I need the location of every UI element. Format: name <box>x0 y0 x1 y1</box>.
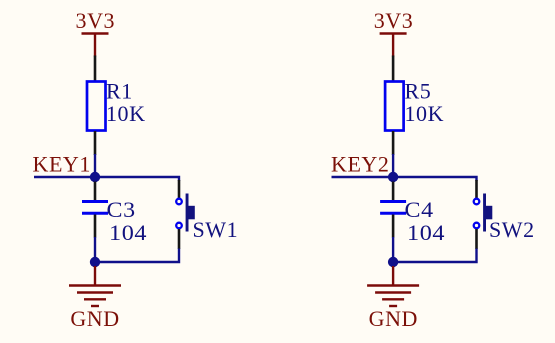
switch SW2 designator label <box>489 217 535 242</box>
wire SW1 bottom to node GND (left) <box>95 249 179 263</box>
switch SW1 bottom contact circle <box>176 223 182 229</box>
power symbol 3V3 bar (right) <box>380 32 407 34</box>
net label 3V3 (right) <box>374 8 414 33</box>
net label GND (left) <box>70 306 119 331</box>
capacitor C4 bottom plate <box>380 212 406 215</box>
capacitor C3 pin 1 (top) <box>94 182 97 201</box>
ground symbol stem (right) <box>392 266 394 286</box>
svg-text:10K: 10K <box>106 101 146 126</box>
ground symbol bar 4 (right) <box>389 305 397 307</box>
switch SW1 designator label <box>193 217 239 242</box>
capacitor C4 pin 2 (bottom) <box>392 215 395 238</box>
net label 3V3 (left) <box>76 8 116 33</box>
wire KEY1 left stub <box>34 176 95 178</box>
ground symbol bar 3 (right) <box>382 298 404 300</box>
svg-text:C3: C3 <box>106 197 135 222</box>
switch SW1 pin 2 (bottom) <box>178 229 181 249</box>
svg-text:3V3: 3V3 <box>374 8 414 33</box>
switch SW2 pin 1 (top) <box>475 180 478 198</box>
wire node KEY1 to SW1 top <box>95 177 179 181</box>
capacitor C3 bottom plate <box>82 212 108 215</box>
resistor R1 body <box>87 82 106 131</box>
resistor R1 pin 2 (bottom) <box>94 131 97 155</box>
power symbol 3V3 stem (left) <box>94 34 96 57</box>
wire C3 to node GND (left) <box>94 237 96 262</box>
wire node KEY2 to SW2 top <box>393 177 476 181</box>
node GND junction (left) <box>90 257 100 267</box>
net label KEY1 <box>33 152 91 177</box>
resistor R5 designator label <box>405 79 432 104</box>
switch SW2 actuator bar <box>483 194 486 232</box>
capacitor C4 pin 1 (top) <box>392 182 395 201</box>
svg-text:C4: C4 <box>404 197 433 222</box>
resistor R5 value label 10K <box>405 101 445 126</box>
svg-text:R1: R1 <box>106 79 133 104</box>
switch SW1 button <box>188 206 194 220</box>
switch SW2 bottom contact circle <box>474 223 480 229</box>
net label GND (right) <box>369 306 418 331</box>
ground symbol bar 2 (right) <box>375 291 411 293</box>
resistor R1 value label 10K <box>106 101 146 126</box>
svg-text:SW1: SW1 <box>193 217 239 242</box>
capacitor C3 top plate <box>82 200 108 203</box>
net label KEY2 <box>331 152 389 177</box>
switch SW2 button <box>486 206 492 220</box>
node GND junction (right) <box>388 257 398 267</box>
power symbol 3V3 stem (right) <box>392 34 394 57</box>
svg-text:104: 104 <box>109 221 147 246</box>
ground symbol bar 4 (left) <box>91 305 99 307</box>
wire C4 to node GND (right) <box>392 237 394 262</box>
switch SW1 top contact circle <box>176 199 182 205</box>
switch SW1 actuator bar <box>186 194 189 232</box>
switch SW1 pin 1 (top) <box>178 180 181 198</box>
resistor R1 pin 1 (top) <box>94 56 97 82</box>
svg-text:R5: R5 <box>405 79 432 104</box>
capacitor C3 designator label <box>106 197 135 222</box>
ground symbol bar 3 (left) <box>84 298 106 300</box>
wire R5 to node KEY2 <box>392 154 394 178</box>
node KEY2 junction <box>388 172 398 182</box>
resistor R5 pin 1 (top) <box>392 56 395 82</box>
ground symbol stem (left) <box>94 266 96 286</box>
capacitor C4 top plate <box>380 200 406 203</box>
svg-text:KEY2: KEY2 <box>331 152 389 177</box>
switch SW2 top contact circle <box>474 199 480 205</box>
resistor R1 designator label <box>106 79 133 104</box>
svg-text:GND: GND <box>70 306 119 331</box>
capacitor C4 designator label <box>404 197 433 222</box>
svg-text:3V3: 3V3 <box>76 8 116 33</box>
svg-text:104: 104 <box>407 221 445 246</box>
resistor R5 body <box>385 82 404 131</box>
capacitor C3 value label 104 <box>109 221 147 246</box>
svg-text:KEY1: KEY1 <box>33 152 91 177</box>
svg-text:GND: GND <box>369 306 418 331</box>
ground symbol bar 1 (right) <box>367 284 419 286</box>
switch SW2 pin 2 (bottom) <box>475 229 478 249</box>
svg-text:10K: 10K <box>405 101 445 126</box>
capacitor C3 pin 2 (bottom) <box>94 215 97 238</box>
resistor R5 pin 2 (bottom) <box>392 131 395 155</box>
ground symbol bar 2 (left) <box>77 291 113 293</box>
svg-text:SW2: SW2 <box>489 217 535 242</box>
wire SW2 bottom to node GND (right) <box>393 249 476 263</box>
node KEY1 junction <box>90 172 100 182</box>
wire KEY2 left stub <box>332 176 394 178</box>
capacitor C4 value label 104 <box>407 221 445 246</box>
power symbol 3V3 bar (left) <box>82 32 109 34</box>
ground symbol bar 1 (left) <box>69 284 121 286</box>
wire R1 to node KEY1 <box>94 154 96 178</box>
